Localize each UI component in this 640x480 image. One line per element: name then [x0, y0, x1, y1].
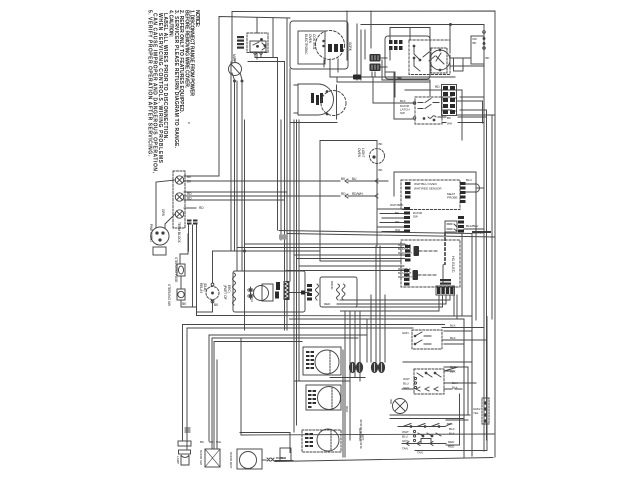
svg-text:RD: RD — [435, 85, 440, 89]
svg-text:WHT/BLU OVEN: WHT/BLU OVEN — [414, 182, 437, 186]
svg-text:BLK: BLK — [450, 324, 456, 328]
svg-text:BU: BU — [352, 177, 357, 181]
svg-text:YEL: YEL — [473, 411, 479, 415]
svg-text:BU: BU — [453, 109, 457, 113]
svg-text:*: * — [188, 122, 190, 128]
svg-text:WH: WH — [216, 440, 221, 444]
svg-text:RED/WHT: RED/WHT — [398, 275, 412, 279]
svg-text:SCRK: SCRK — [348, 42, 352, 52]
svg-text:RD: RD — [199, 206, 204, 210]
svg-text:OVEN: OVEN — [357, 148, 361, 158]
svg-text:OVEN: OVEN — [308, 34, 312, 44]
svg-text:BLU: BLU — [466, 178, 472, 182]
svg-text:BLK: BLK — [449, 427, 455, 431]
svg-text:BLK: BLK — [447, 422, 453, 426]
svg-text:WHT: WHT — [402, 430, 409, 434]
svg-text:TERM BLOCK: TERM BLOCK — [177, 222, 181, 244]
svg-text:WH: WH — [447, 122, 452, 126]
svg-text:STERLING SW: STERLING SW — [167, 284, 171, 306]
svg-text:(PART OF: (PART OF — [223, 285, 227, 300]
svg-text:BK: BK — [486, 56, 490, 60]
svg-text:BLK: BLK — [400, 99, 406, 103]
svg-text:RED: RED — [324, 302, 331, 306]
svg-text:SW: SW — [413, 215, 418, 219]
svg-text:BLK/BLU: BLK/BLU — [466, 224, 478, 228]
svg-text:CONV: CONV — [250, 293, 254, 302]
svg-text:GRN: GRN — [161, 209, 165, 217]
svg-text:BK: BK — [379, 142, 383, 146]
svg-text:BLK: BLK — [281, 456, 287, 460]
svg-text:RED: RED — [448, 440, 455, 444]
svg-text:LIGHT: LIGHT — [361, 148, 365, 157]
svg-text:IND: IND — [389, 399, 393, 405]
svg-text:BLU: BLU — [403, 382, 409, 386]
svg-text:DOOR SW: DOOR SW — [199, 450, 203, 465]
svg-text:SW: SW — [400, 111, 405, 115]
svg-text:MOT: MOT — [232, 54, 236, 62]
svg-text:TAN: TAN — [402, 447, 408, 451]
svg-text:ELECTRONIC: ELECTRONIC — [304, 34, 308, 55]
svg-text:BLK: BLK — [450, 336, 456, 340]
svg-text:BK: BK — [395, 211, 399, 215]
svg-text:BROIL: BROIL — [330, 281, 334, 290]
svg-text:BLU: BLU — [402, 435, 408, 439]
svg-text:PROBE: PROBE — [447, 196, 458, 200]
svg-text:BLK: BLK — [449, 432, 455, 436]
svg-text:WHT/BLK: WHT/BLK — [390, 203, 403, 207]
svg-text:WHT/RED SENSOR: WHT/RED SENSOR — [414, 187, 442, 191]
svg-text:BK: BK — [379, 168, 383, 172]
svg-text:GROUND: GROUND — [358, 428, 362, 442]
svg-text:RD/WH: RD/WH — [352, 192, 363, 196]
svg-text:STERLING FUSE: STERLING FUSE — [174, 257, 178, 282]
svg-text:(DLB): (DLB) — [203, 283, 207, 291]
svg-text:WHT: WHT — [403, 377, 410, 381]
svg-text:RD: RD — [187, 192, 192, 196]
svg-text:LAMP: LAMP — [176, 456, 180, 464]
svg-text:H1 ELEC: H1 ELEC — [451, 256, 456, 273]
svg-text:BK: BK — [447, 116, 451, 120]
svg-text:ERC): ERC) — [227, 285, 231, 293]
svg-text:WH: WH — [395, 228, 400, 232]
svg-text:BK: BK — [200, 440, 204, 444]
svg-text:DOOR MOT: DOOR MOT — [229, 452, 233, 469]
svg-text:PWR CORD: PWR CORD — [149, 224, 153, 242]
svg-text:GRN: GRN — [402, 331, 409, 335]
svg-text:TAN: TAN — [417, 451, 423, 455]
svg-text:RED/WHT: RED/WHT — [398, 251, 412, 255]
svg-text:BLK: BLK — [450, 370, 456, 374]
svg-text:5. VERIFY PROPER OPERATION AFT: 5. VERIFY PROPER OPERATION AFTER SERVICI… — [146, 10, 152, 157]
svg-text:BK: BK — [473, 41, 477, 45]
svg-text:RELAY: RELAY — [199, 283, 203, 294]
svg-text:RED: RED — [345, 406, 349, 413]
